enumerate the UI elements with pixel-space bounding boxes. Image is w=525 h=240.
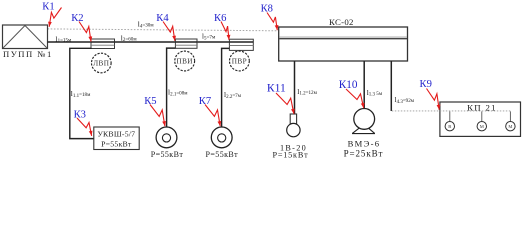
svg-text:l1=15м: l1=15м <box>56 34 73 44</box>
svg-text:l2=60м: l2=60м <box>121 33 138 43</box>
svg-text:Р=25кВт: Р=25кВт <box>344 148 384 158</box>
svg-text:l1.3 5м: l1.3 5м <box>367 88 383 98</box>
svg-text:l2.2=7м: l2.2=7м <box>224 90 242 100</box>
svg-text:М: М <box>480 124 484 129</box>
svg-text:К11: К11 <box>267 82 286 95</box>
svg-text:К6: К6 <box>214 13 226 24</box>
svg-text:К9: К9 <box>420 79 432 90</box>
svg-text:Р=55кВт: Р=55кВт <box>206 150 239 159</box>
svg-text:КС-02: КС-02 <box>329 17 354 27</box>
svg-text:l1.1=18м: l1.1=18м <box>71 89 91 99</box>
svg-text:ВМЭ-6: ВМЭ-6 <box>348 139 381 149</box>
svg-text:l4=30м: l4=30м <box>138 20 155 30</box>
svg-text:ПВИ: ПВИ <box>177 57 193 65</box>
svg-text:l2.1=08м: l2.1=08м <box>168 88 188 98</box>
svg-text:К3: К3 <box>74 109 86 120</box>
svg-text:К10: К10 <box>339 79 358 91</box>
svg-text:Р=15кВт: Р=15кВт <box>273 151 309 160</box>
svg-text:ПВР: ПВР <box>232 57 247 65</box>
svg-text:УКВШ-5/7: УКВШ-5/7 <box>97 130 135 139</box>
svg-text:l5=7м: l5=7м <box>202 33 216 42</box>
svg-text:М: М <box>508 124 512 129</box>
svg-text:Р=55кВт: Р=55кВт <box>151 150 184 159</box>
svg-text:К1: К1 <box>42 1 54 12</box>
svg-text:ПУПП №1: ПУПП №1 <box>3 49 53 59</box>
svg-text:l1.2=12м: l1.2=12м <box>297 87 317 97</box>
svg-text:ЛВП: ЛВП <box>93 59 109 67</box>
svg-text:К2: К2 <box>71 13 83 24</box>
svg-text:В: В <box>448 124 451 129</box>
svg-text:l4.3=92м: l4.3=92м <box>395 95 415 105</box>
svg-text:Р=55кВт: Р=55кВт <box>101 140 132 149</box>
